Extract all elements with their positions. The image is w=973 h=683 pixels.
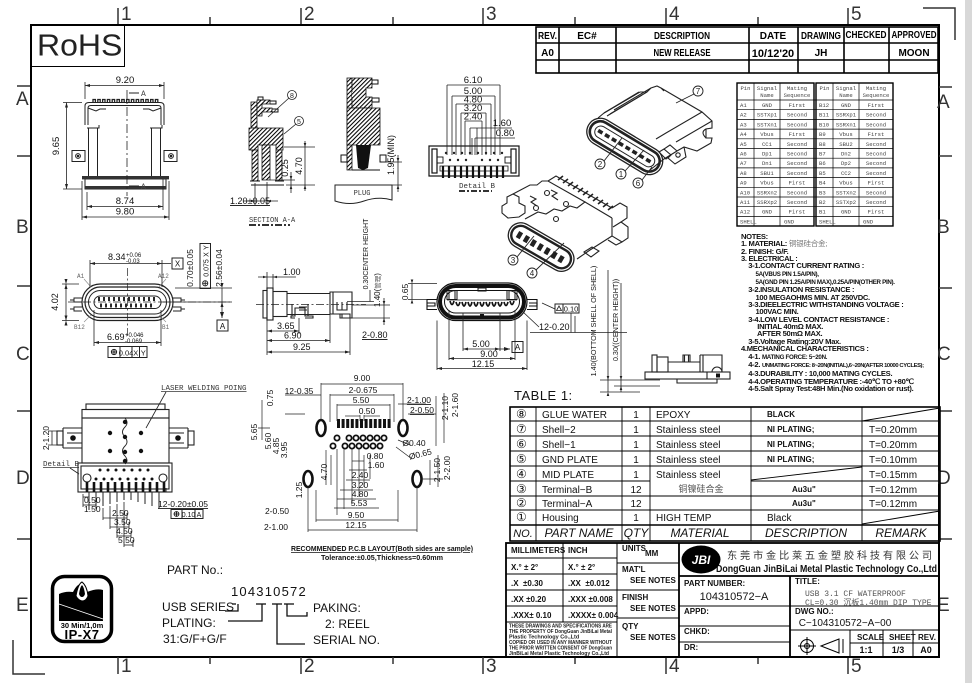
svg-text:2-1.60: 2-1.60: [450, 393, 460, 417]
svg-text:2-1.50: 2-1.50: [432, 458, 442, 482]
svg-text:1.40(BOTTOM SHELL OF SHELL): 1.40(BOTTOM SHELL OF SHELL): [589, 266, 598, 377]
svg-text:1.40(管理): 1.40(管理): [373, 273, 382, 307]
svg-text:5.50: 5.50: [118, 535, 135, 545]
svg-text:A: A: [141, 90, 146, 99]
svg-text:2: 2: [598, 160, 603, 169]
svg-text:0.30((CENTER HEIGHT)): 0.30((CENTER HEIGHT)): [611, 279, 620, 361]
svg-text:X: X: [175, 260, 181, 269]
svg-text:A: A: [141, 183, 146, 192]
svg-text:Detail B: Detail B: [459, 183, 496, 191]
svg-text:LASER WELDING POING: LASER WELDING POING: [161, 385, 247, 393]
svg-text:7: 7: [696, 87, 701, 96]
svg-text:-0.069: -0.069: [125, 339, 143, 345]
svg-text:2-1.00: 2-1.00: [407, 395, 431, 405]
svg-text:RECOMMENDED P.C.B LAYOUT(Both: RECOMMENDED P.C.B LAYOUT(Both sides are …: [291, 544, 473, 553]
svg-text:Detail B: Detail B: [43, 461, 80, 469]
svg-text:6: 6: [636, 179, 641, 188]
svg-text:0.25: 0.25: [280, 159, 290, 177]
svg-text:12-0.35: 12-0.35: [285, 386, 314, 396]
svg-text:2-1.00: 2-1.00: [264, 522, 288, 532]
svg-text:B12: B12: [74, 324, 85, 331]
svg-text:Ø0.40: Ø0.40: [402, 438, 425, 448]
svg-text:Ø0.65: Ø0.65: [408, 446, 433, 461]
svg-text:Tolerance:±0.05,Thickness=0.60: Tolerance:±0.05,Thickness=0.60mm: [321, 555, 443, 562]
svg-text:A12: A12: [158, 273, 169, 280]
svg-text:2.56±0.04: 2.56±0.04: [214, 249, 224, 287]
svg-text:0.70±0.05: 0.70±0.05: [185, 249, 195, 287]
svg-text:A: A: [515, 343, 521, 352]
svg-text:9.50: 9.50: [348, 510, 365, 520]
svg-text:9.80: 9.80: [116, 207, 135, 218]
svg-text:4.70: 4.70: [294, 157, 304, 175]
svg-text:1.50: 1.50: [84, 504, 101, 514]
svg-text:5.65: 5.65: [249, 423, 259, 440]
svg-text:0.65: 0.65: [400, 283, 410, 300]
svg-text:SECTION A-A: SECTION A-A: [249, 217, 296, 225]
svg-text:12.15: 12.15: [345, 520, 367, 530]
svg-text:5.50: 5.50: [353, 395, 370, 405]
svg-text:2-1.10: 2-1.10: [440, 396, 450, 420]
svg-text:1.25: 1.25: [294, 481, 304, 498]
svg-text:9.00: 9.00: [480, 349, 498, 359]
svg-text:6.10: 6.10: [464, 75, 483, 86]
svg-text:PLUG: PLUG: [354, 190, 371, 198]
svg-text:5.00: 5.00: [472, 339, 490, 349]
svg-text:2-0.675: 2-0.675: [349, 385, 378, 395]
svg-text:2-0.80: 2-0.80: [362, 330, 388, 340]
svg-text:3.95: 3.95: [279, 441, 289, 458]
svg-text:5: 5: [297, 119, 301, 126]
svg-text:2.40: 2.40: [352, 470, 369, 480]
svg-text:0.10: 0.10: [564, 305, 579, 314]
svg-text:1.95(MIN): 1.95(MIN): [386, 135, 396, 175]
svg-text:X: X: [133, 349, 138, 358]
svg-text:9.65: 9.65: [51, 137, 62, 156]
svg-text:0.04: 0.04: [119, 349, 134, 358]
svg-text:X: X: [204, 252, 211, 257]
svg-text:5.53: 5.53: [351, 498, 368, 508]
svg-text:A: A: [220, 322, 226, 331]
svg-text:8.34: 8.34: [108, 252, 126, 262]
svg-text:12.15: 12.15: [472, 359, 495, 369]
svg-text:9.00: 9.00: [354, 373, 371, 383]
svg-text:8.74: 8.74: [116, 196, 135, 207]
svg-text:1.20±0.05: 1.20±0.05: [230, 196, 270, 206]
svg-text:B1: B1: [162, 324, 170, 331]
svg-text:4: 4: [530, 269, 535, 278]
svg-text:1.00: 1.00: [283, 267, 301, 277]
svg-text:4.70: 4.70: [319, 463, 329, 480]
svg-text:1: 1: [619, 170, 624, 179]
svg-text:0.10: 0.10: [182, 512, 196, 519]
svg-text:3.65: 3.65: [277, 321, 295, 331]
svg-text:0.75: 0.75: [265, 389, 275, 406]
svg-text:3: 3: [511, 256, 516, 265]
svg-text:2.40: 2.40: [464, 112, 483, 123]
svg-text:0.30CENTER HEIGHT: 0.30CENTER HEIGHT: [363, 218, 370, 290]
svg-text:A: A: [197, 512, 202, 519]
svg-text:Y: Y: [141, 349, 146, 358]
svg-text:A1: A1: [77, 273, 85, 280]
svg-text:0.50: 0.50: [359, 406, 376, 416]
svg-text:0.075: 0.075: [204, 259, 211, 277]
svg-text:2-2.00: 2-2.00: [442, 456, 452, 480]
svg-text:1.60: 1.60: [368, 460, 385, 470]
svg-text:9.20: 9.20: [116, 75, 135, 86]
svg-text:2-1.20: 2-1.20: [41, 426, 51, 450]
svg-text:12-0.20: 12-0.20: [539, 322, 570, 332]
svg-text:6.90: 6.90: [284, 331, 302, 341]
svg-text:9.25: 9.25: [293, 342, 311, 352]
svg-text:2-0.50: 2-0.50: [410, 405, 434, 415]
svg-text:12-0.20±0.05: 12-0.20±0.05: [158, 499, 208, 509]
svg-text:2-0.50: 2-0.50: [265, 506, 289, 516]
svg-text:6.69: 6.69: [107, 332, 125, 342]
svg-text:Y: Y: [204, 245, 211, 250]
svg-text:4.02: 4.02: [50, 293, 60, 311]
svg-text:-0.03: -0.03: [126, 259, 140, 265]
svg-text:0.80: 0.80: [496, 128, 515, 139]
svg-text:8: 8: [290, 93, 294, 100]
